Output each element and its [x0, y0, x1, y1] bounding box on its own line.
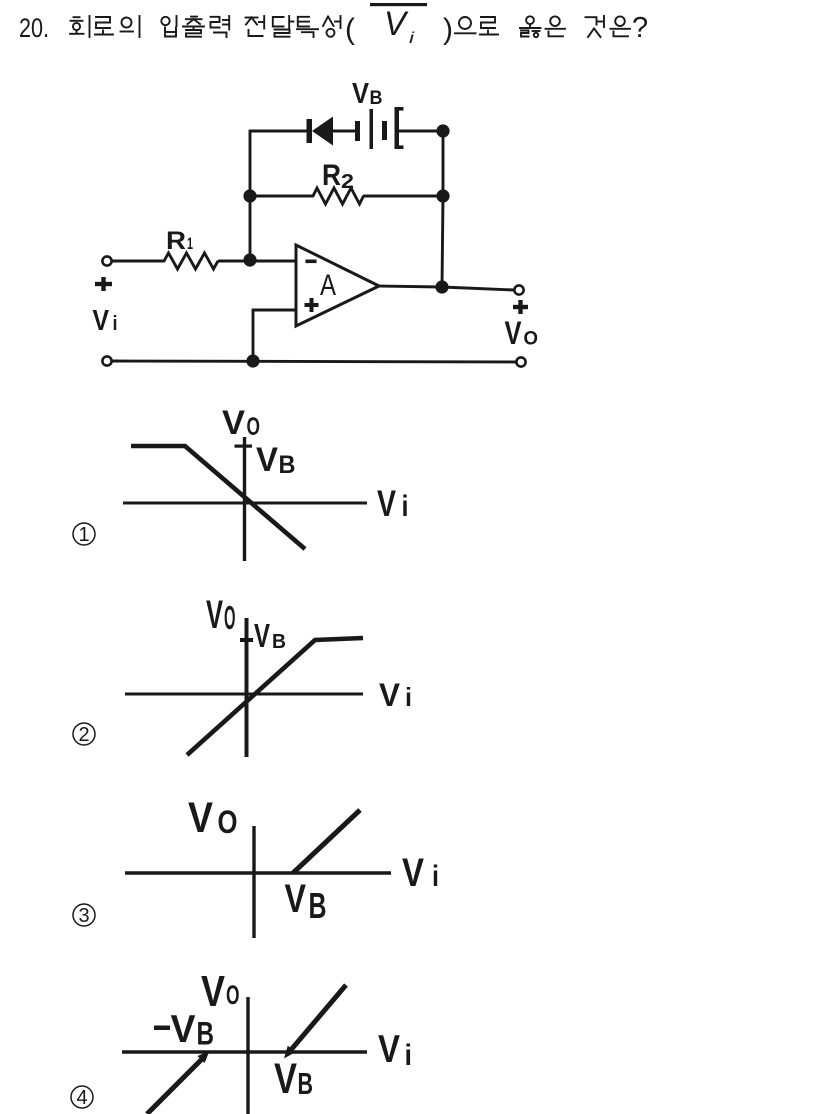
- svg-text:B: B: [272, 631, 286, 653]
- svg-text:): ): [443, 13, 453, 46]
- svg-text:B: B: [279, 451, 296, 479]
- svg-text:V: V: [352, 78, 370, 110]
- svg-text:O: O: [247, 413, 261, 441]
- svg-text:R: R: [166, 227, 186, 255]
- svg-text:1: 1: [187, 234, 193, 253]
- svg-text:V: V: [222, 404, 245, 442]
- svg-text:1: 1: [78, 524, 89, 546]
- svg-text:?: ?: [632, 12, 648, 44]
- svg-text:V: V: [377, 483, 396, 524]
- svg-text:V: V: [379, 677, 401, 713]
- svg-text:V: V: [378, 1028, 400, 1071]
- svg-text:V: V: [201, 967, 226, 1016]
- svg-text:V: V: [285, 877, 307, 921]
- svg-text:V: V: [274, 1055, 297, 1103]
- svg-text:B: B: [197, 1016, 215, 1052]
- svg-text:V: V: [505, 315, 523, 351]
- svg-text:B: B: [309, 885, 327, 926]
- svg-text:O: O: [218, 804, 238, 840]
- svg-text:O: O: [226, 980, 240, 1010]
- svg-text:3: 3: [78, 905, 89, 927]
- svg-text:V: V: [384, 5, 409, 43]
- svg-text:V: V: [206, 593, 223, 637]
- svg-text:O: O: [524, 328, 539, 350]
- svg-text:20.: 20.: [19, 13, 49, 43]
- svg-text:i: i: [405, 1039, 413, 1072]
- svg-text:i: i: [409, 30, 415, 47]
- svg-text:4: 4: [76, 1087, 87, 1109]
- svg-text:R: R: [322, 159, 341, 192]
- svg-text:V: V: [402, 851, 424, 895]
- svg-text:2: 2: [341, 171, 354, 193]
- svg-text:i: i: [402, 490, 409, 523]
- svg-text:V: V: [188, 794, 213, 842]
- svg-text:V: V: [254, 617, 270, 654]
- svg-text:V: V: [93, 305, 110, 337]
- svg-text:(: (: [345, 13, 355, 46]
- svg-text:B: B: [298, 1067, 314, 1101]
- svg-text:A: A: [320, 269, 336, 302]
- svg-text:i: i: [405, 682, 412, 712]
- svg-text:B: B: [370, 87, 383, 109]
- svg-text:V: V: [171, 1008, 196, 1051]
- svg-text:V: V: [256, 441, 278, 479]
- svg-text:2: 2: [78, 724, 89, 746]
- svg-text:i: i: [113, 313, 118, 335]
- svg-text:O: O: [224, 599, 236, 636]
- svg-text:i: i: [432, 860, 439, 893]
